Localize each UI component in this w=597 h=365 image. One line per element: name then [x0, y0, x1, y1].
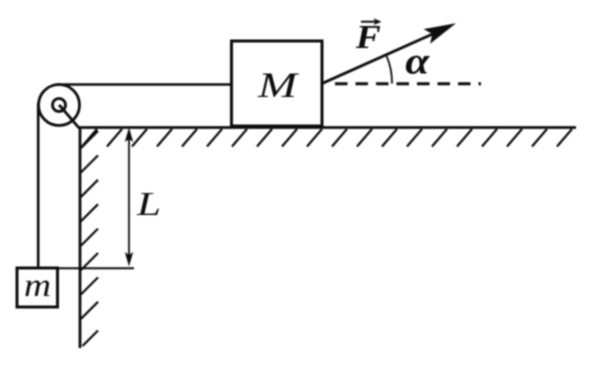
svg-text:M: M: [257, 65, 300, 105]
svg-text:F: F: [355, 19, 381, 56]
svg-text:α: α: [405, 41, 430, 83]
svg-text:L: L: [136, 186, 161, 223]
svg-text:m: m: [24, 268, 51, 304]
